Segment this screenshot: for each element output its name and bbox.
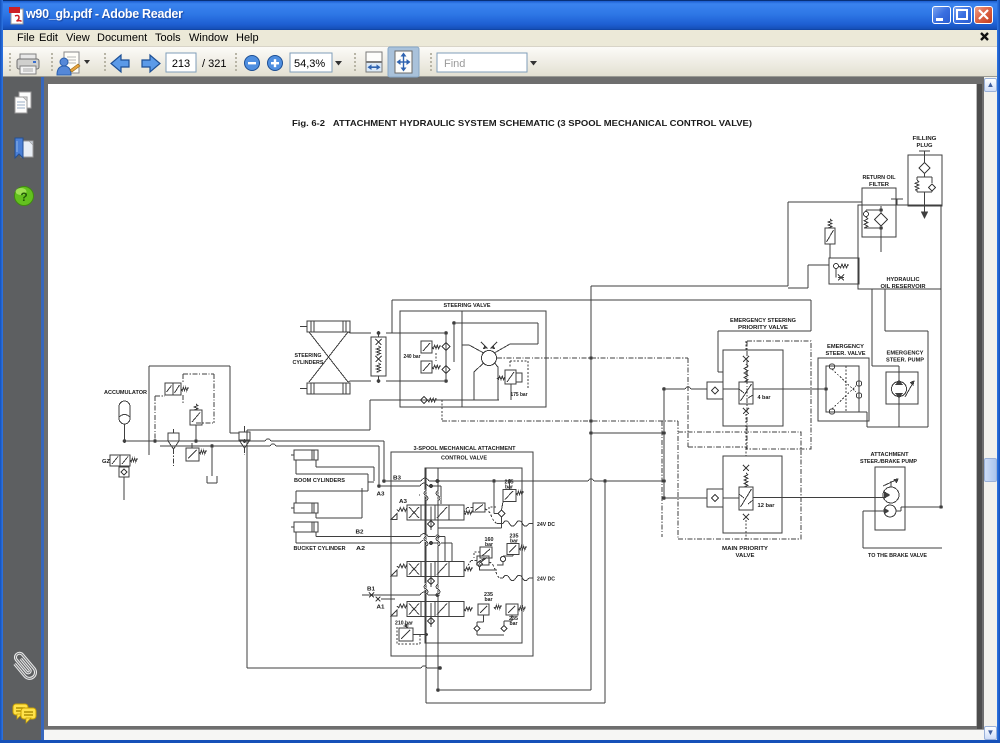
wire accumulator trunk xyxy=(125,440,266,442)
relief 235 bar mid xyxy=(497,534,526,566)
svg-text:EMERGENCY: EMERGENCY xyxy=(887,351,925,357)
relief 235 bar low left xyxy=(474,592,504,635)
steering cylinders xyxy=(293,321,372,394)
svg-text:3-SPOOL MECHANICAL ATTACHMENT: 3-SPOOL MECHANICAL ATTACHMENT xyxy=(414,446,516,452)
svg-text:GZ: GZ xyxy=(102,459,110,465)
wire priority inlet xyxy=(664,388,685,390)
pilot lines accumulator xyxy=(155,374,245,466)
main priority pilot box xyxy=(678,432,801,539)
accumulator xyxy=(104,390,147,441)
wire boom to B3 xyxy=(316,460,374,481)
printer icon xyxy=(17,54,39,74)
help icon xyxy=(15,187,34,206)
hydraulic oil reservoir xyxy=(858,205,941,290)
wire reservoir to pumps xyxy=(872,289,899,381)
svg-text:ACCUMULATOR: ACCUMULATOR xyxy=(104,390,147,396)
fit page button (selected) xyxy=(388,47,419,77)
svg-text:A3: A3 xyxy=(377,492,385,498)
solenoid valve upper xyxy=(165,383,188,395)
spool 3 attachment xyxy=(391,602,472,617)
wire steering valve internal xyxy=(454,323,538,344)
wire boom lower right port xyxy=(316,488,362,518)
svg-text:FILLING: FILLING xyxy=(913,136,937,142)
svg-text:B1: B1 xyxy=(367,587,375,593)
svg-text:A3: A3 xyxy=(399,499,407,505)
wire main priority xyxy=(664,497,707,499)
pilot line branch xyxy=(661,421,663,537)
svg-text:STEERING: STEERING xyxy=(295,353,322,359)
zoom in button xyxy=(268,56,283,71)
pages panel icon xyxy=(15,92,31,113)
svg-text:12 bar: 12 bar xyxy=(758,503,775,509)
wire bucket A2 xyxy=(296,532,452,561)
pilot line to priority valve xyxy=(688,358,747,447)
solenoid valve GZ xyxy=(102,455,137,500)
wire boom to A3 xyxy=(296,460,374,503)
steering unit rotor xyxy=(462,342,514,400)
fit width icon xyxy=(366,52,382,72)
svg-text:A1: A1 xyxy=(377,605,385,611)
main priority inlet connector xyxy=(707,489,723,507)
svg-text:TO THE BRAKE VALVE: TO THE BRAKE VALVE xyxy=(868,553,928,559)
load check diamonds xyxy=(428,518,435,627)
sequence valve xyxy=(186,448,206,461)
svg-text:VALVE: VALVE xyxy=(736,553,756,559)
svg-text:STEERING VALVE: STEERING VALVE xyxy=(444,303,492,309)
relief 160 bar xyxy=(474,537,497,570)
control valve inner box xyxy=(425,468,522,643)
steering relief valves 240 bar xyxy=(404,341,441,373)
priority valve pilot box xyxy=(747,341,811,449)
accumulator circuit box xyxy=(149,366,239,455)
emergency steer pump xyxy=(886,351,925,428)
wire bucket B2 xyxy=(316,532,445,561)
svg-text:B2: B2 xyxy=(356,530,364,536)
svg-text:STEER. VALVE: STEER. VALVE xyxy=(826,351,867,357)
comments icon xyxy=(13,704,36,723)
wire 24V DC upper xyxy=(485,509,497,524)
node B3 xyxy=(383,480,386,483)
wire valve to priority xyxy=(591,432,664,434)
attachment steer brake pump xyxy=(860,452,918,530)
toolbar grip xyxy=(10,53,431,72)
svg-text:Fig. 6-2 ATTACHMENT HYDRAULI: Fig. 6-2 ATTACHMENT HYDRAULIC SYSTEM SCH… xyxy=(292,119,752,128)
relief funnel right xyxy=(239,426,250,448)
cylinder port relief block xyxy=(371,332,400,383)
pilot line steering unit xyxy=(497,357,688,359)
zoom out button xyxy=(245,56,260,71)
svg-text:EMERGENCY: EMERGENCY xyxy=(827,344,865,350)
svg-text:4 bar: 4 bar xyxy=(758,395,771,401)
wire steering valve top xyxy=(392,299,811,301)
wire priority feed riser xyxy=(663,389,665,498)
svg-text:24V DC: 24V DC xyxy=(537,522,555,528)
svg-text:PLUG: PLUG xyxy=(917,143,933,149)
forward arrow xyxy=(142,55,160,72)
priority valve spool 4 bar xyxy=(739,341,771,448)
wire return line upper xyxy=(591,285,788,287)
spool 2 bucket xyxy=(391,562,472,577)
steering valve xyxy=(400,303,546,407)
svg-text:PRIORITY VALVE: PRIORITY VALVE xyxy=(738,325,789,331)
sign tool icon xyxy=(57,52,90,75)
emergency steering priority valve xyxy=(723,318,796,426)
main priority spool 12 bar xyxy=(739,448,775,539)
svg-text:FILTER: FILTER xyxy=(869,182,889,188)
paperclip icon xyxy=(11,652,38,681)
wire A3 into valve xyxy=(379,486,441,504)
svg-text:240 bar: 240 bar xyxy=(404,354,421,360)
relief valve 175 bar xyxy=(497,361,528,400)
svg-text:BUCKET CYLINDER: BUCKET CYLINDER xyxy=(294,546,346,552)
page number box xyxy=(166,53,196,72)
svg-text:STEER. PUMP: STEER. PUMP xyxy=(886,358,925,364)
svg-text:OIL RESERVOIR: OIL RESERVOIR xyxy=(881,284,926,290)
boom cylinder upper xyxy=(291,450,318,460)
svg-text:MAIN PRIORITY: MAIN PRIORITY xyxy=(722,546,769,552)
find box xyxy=(437,53,527,72)
breather vent xyxy=(891,199,903,205)
wire to brake valve xyxy=(863,511,942,548)
relief 235 bar low right xyxy=(501,604,525,632)
wire supply gallery xyxy=(425,468,427,703)
control valve outer box xyxy=(391,452,533,656)
svg-text:ATTACHMENT: ATTACHMENT xyxy=(871,452,909,458)
back arrow xyxy=(111,55,129,72)
wire reservoir inlet xyxy=(788,201,862,203)
bucket cylinder xyxy=(291,522,318,532)
check valves xyxy=(400,332,450,383)
solenoid spool1 xyxy=(464,503,485,513)
svg-text:bar: bar xyxy=(485,597,493,603)
boom cylinder lower xyxy=(291,503,318,513)
reservoir relief valve xyxy=(825,219,835,258)
wire accumulator trunk 2 xyxy=(160,445,270,447)
relief 210 bar xyxy=(395,621,427,645)
relief funnel left xyxy=(168,429,179,449)
svg-text:bar: bar xyxy=(510,621,518,627)
spool 1 boom xyxy=(391,499,472,520)
filling plug xyxy=(908,136,942,218)
solenoid spool2 xyxy=(468,556,489,566)
return check valve xyxy=(370,397,499,404)
wire 24V DC lower xyxy=(489,562,500,578)
wire attachment pump outlet xyxy=(896,507,941,511)
svg-text:EMERGENCY STEERING: EMERGENCY STEERING xyxy=(730,318,796,324)
svg-text:24V DC: 24V DC xyxy=(537,576,555,582)
svg-text:HYDRAULIC: HYDRAULIC xyxy=(887,277,920,283)
reservoir check valve xyxy=(829,258,859,284)
svg-text:RETURN OIL: RETURN OIL xyxy=(863,175,896,181)
relief 235 bar top xyxy=(438,480,523,529)
return oil filter xyxy=(862,175,896,252)
emergency steer valve xyxy=(818,344,869,421)
svg-text:BOOM CYLINDERS: BOOM CYLINDERS xyxy=(294,478,346,484)
wire tank loop right xyxy=(426,481,605,703)
wire tank return left xyxy=(247,400,440,668)
svg-text:CYLINDERS: CYLINDERS xyxy=(293,360,325,366)
tank symbol xyxy=(207,446,217,483)
gallery break symbols xyxy=(424,491,428,501)
svg-text:STEER./BRAKE PUMP: STEER./BRAKE PUMP xyxy=(860,459,918,465)
pilot operated valve xyxy=(190,404,202,441)
bookmarks panel icon xyxy=(15,138,33,158)
svg-text:CONTROL VALVE: CONTROL VALVE xyxy=(441,456,488,462)
svg-text:A2: A2 xyxy=(356,546,365,552)
zoom level box xyxy=(290,53,332,72)
main priority valve xyxy=(722,456,782,559)
svg-text:175 bar: 175 bar xyxy=(511,392,528,398)
pilot line lower xyxy=(441,400,443,421)
wire B3 trunk xyxy=(384,480,588,482)
priority valve inlet connector xyxy=(707,382,723,399)
